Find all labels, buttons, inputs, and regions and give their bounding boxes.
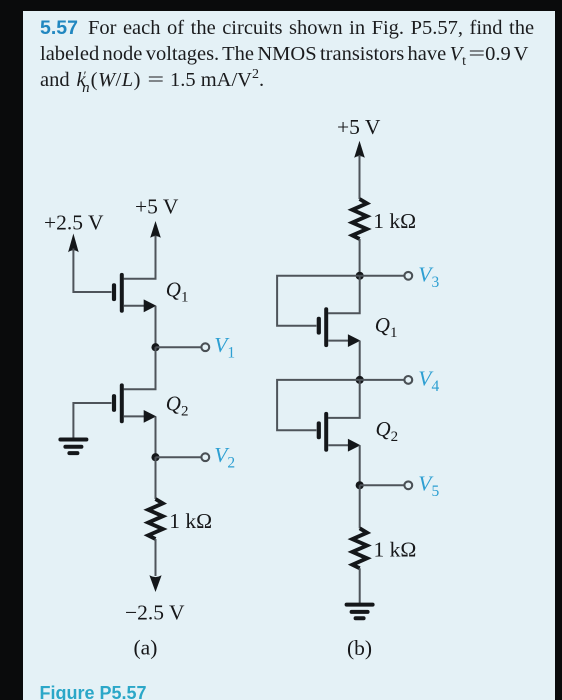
wire node V1 to terminal	[156, 346, 201, 348]
arrow +2.5V supply	[68, 234, 79, 253]
svg-text:V2: V2	[214, 443, 235, 472]
resistor 1 kOhm (a)	[148, 499, 163, 539]
wire resistor (b) to node V3	[359, 239, 361, 276]
arrow -2.5V supply (down)	[149, 575, 161, 592]
svg-text:1 kΩ: 1 kΩ	[374, 537, 417, 561]
svg-text:+5 V: +5 V	[135, 195, 179, 219]
svg-text:V1: V1	[214, 333, 235, 362]
svg-text:+2.5 V: +2.5 V	[44, 211, 104, 235]
svg-text:V3: V3	[418, 263, 439, 292]
node V4 junction dot	[356, 376, 364, 384]
svg-text:−2.5 V: −2.5 V	[125, 601, 185, 625]
terminal circle V3	[404, 272, 412, 280]
svg-text:Q2: Q2	[376, 417, 399, 445]
svg-text:V4: V4	[418, 367, 439, 396]
wire node V4 to Q2 drain	[328, 380, 360, 418]
transistor Q1 (a) source arrowhead	[144, 299, 157, 312]
terminal circle V1	[201, 343, 209, 351]
wire node V5 to terminal	[360, 484, 404, 486]
terminal circle V5	[404, 481, 412, 489]
wire node V5 to resistor (b bottom)	[359, 485, 361, 528]
wire feedback V3 to Q1 gate	[277, 276, 360, 326]
wire node V3 to Q1 drain	[328, 276, 360, 313]
transistor Q2 (a) channel bar	[120, 383, 124, 423]
svg-text:Q2: Q2	[166, 392, 189, 420]
transistor Q1 (a) channel bar	[120, 273, 124, 313]
svg-text:V5: V5	[418, 472, 439, 501]
svg-text:+5 V: +5 V	[337, 115, 381, 139]
wire node V2 to resistor (a)	[155, 457, 157, 499]
wire Q1 source to node V1	[155, 306, 157, 347]
wire Q2 (b) source to node V5	[359, 445, 361, 485]
transistor Q2 (a) gate bar	[112, 394, 116, 412]
wire node V3 to terminal	[360, 275, 404, 277]
wire node V2 to terminal	[156, 456, 201, 458]
svg-text:1 kΩ: 1 kΩ	[169, 509, 212, 533]
wire node V4 to terminal	[360, 379, 404, 381]
wire +5V stem to Q1 drain	[124, 236, 156, 279]
svg-text:(b): (b)	[347, 636, 372, 660]
svg-text:Q1: Q1	[166, 278, 189, 306]
transistor Q1 (a) source wire	[124, 305, 146, 307]
terminal circle V4	[404, 376, 412, 384]
wire +5V stem to resistor (b)	[359, 155, 361, 199]
node V3 junction dot	[356, 272, 364, 280]
wire +2.5V arrow stem to Q1 gate	[73, 249, 111, 293]
resistor 1 kOhm (b top)	[352, 199, 367, 239]
svg-text:1 kΩ: 1 kΩ	[373, 209, 416, 233]
wire Q2 gate to ground	[73, 403, 111, 438]
transistor Q2 (a) source arrowhead	[144, 410, 157, 423]
node V1 junction dot	[151, 343, 159, 351]
wire resistor (b bottom) to ground	[359, 568, 361, 603]
wire feedback V4 to Q2 gate	[277, 380, 360, 430]
ground symbol (b)	[347, 605, 373, 619]
svg-text:(a): (a)	[134, 636, 158, 660]
wire resistor (a) to -2.5V arrow	[155, 539, 157, 576]
arrow +5V supply (a)	[150, 221, 161, 238]
transistor Q2 (b) source wire	[328, 444, 350, 446]
svg-text:Q1: Q1	[375, 313, 398, 341]
wire node V1 to Q2 drain	[124, 347, 156, 389]
transistor Q2 (b) channel bar	[324, 412, 328, 452]
transistor Q1 (b) source wire	[328, 340, 350, 342]
ground symbol (a)	[60, 440, 86, 454]
transistor Q1 (b) gate bar	[317, 317, 321, 335]
arrow +5V supply (b)	[354, 141, 365, 158]
node V5 junction dot	[356, 481, 364, 489]
terminal circle V2	[201, 453, 209, 461]
transistor Q1 (b) channel bar	[324, 307, 328, 347]
resistor 1 kOhm (b bottom)	[352, 528, 367, 568]
transistor Q1 (b) source arrowhead	[348, 334, 361, 347]
transistor Q2 (b) gate bar	[317, 421, 321, 439]
node V2 junction dot	[151, 453, 159, 461]
transistor Q2 (a) source wire	[124, 415, 146, 417]
transistor Q2 (b) source arrowhead	[348, 439, 361, 452]
wire Q1 (b) source to node V4	[359, 341, 361, 380]
transistor Q1 (a) gate bar	[112, 283, 116, 301]
wire Q2 source to node V2	[155, 416, 157, 457]
